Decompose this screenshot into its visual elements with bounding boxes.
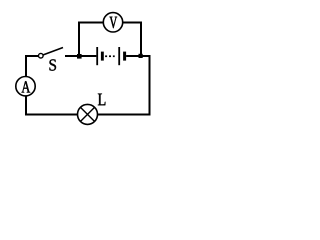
node junction left xyxy=(77,54,82,59)
wire top-right branch (voltmeter down to junction) xyxy=(123,23,141,57)
voltmeter V xyxy=(103,13,122,32)
battery B1 (multi-cell with ellipsis) xyxy=(97,47,126,65)
ammeter A xyxy=(16,77,35,96)
lamp L xyxy=(78,94,106,125)
wire ammeter to lamp (left rail lower + bottom rail left) xyxy=(26,96,78,115)
switch S xyxy=(39,48,64,71)
wire switch to battery xyxy=(65,55,96,57)
wire top-left branch (junction up to voltmeter) xyxy=(79,23,103,57)
node junction right xyxy=(139,54,143,58)
wire mid-left to left rail upper xyxy=(26,56,38,77)
wire battery to right rail and bottom to lamp xyxy=(98,56,150,115)
